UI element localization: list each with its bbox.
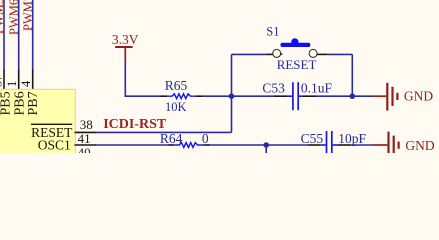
svg-text:40: 40 bbox=[78, 145, 91, 153]
wire C53 to junction bbox=[316, 95, 352, 97]
wire ICDI-RST horizontal bbox=[97, 131, 232, 133]
pin 41 stub (black) bbox=[75, 144, 97, 146]
junction dot at S1/C53/GND tee bbox=[350, 93, 356, 99]
stub bbox=[372, 95, 386, 97]
svg-text:RESET: RESET bbox=[277, 57, 317, 72]
svg-text:10pF: 10pF bbox=[338, 131, 366, 146]
plate left bbox=[292, 82, 294, 110]
wire from S1 right bbox=[327, 53, 352, 55]
plate left bbox=[326, 131, 328, 154]
pin 57 wire stub (black) bbox=[3, 70, 5, 90]
svg-text:R64: R64 bbox=[160, 131, 183, 146]
lead left bbox=[287, 95, 292, 97]
plate right bbox=[331, 131, 333, 154]
svg-text:GND: GND bbox=[404, 88, 433, 103]
svg-text:0.1uF: 0.1uF bbox=[301, 81, 333, 96]
wire PWM net 2 (vertical) bbox=[18, 0, 20, 70]
terminal circle left bbox=[273, 49, 281, 57]
svg-text:C55: C55 bbox=[301, 131, 324, 146]
svg-text:PWM7: PWM7 bbox=[21, 0, 35, 31]
pin 1 arrow tip bbox=[281, 53, 283, 56]
actuator plunger bump bbox=[291, 38, 298, 45]
svg-text:PWM5: PWM5 bbox=[0, 0, 6, 34]
ground GND (top) bbox=[372, 83, 433, 111]
capacitor C55 bbox=[301, 131, 367, 154]
resistor R65 bbox=[161, 78, 203, 114]
pin 1 of C55 (black) bbox=[307, 144, 320, 146]
svg-text:R65: R65 bbox=[165, 78, 188, 93]
bar 1 bbox=[387, 132, 389, 154]
svg-text:GND: GND bbox=[405, 138, 434, 153]
pin 2 of R65 (black) bbox=[196, 95, 203, 97]
lead right bbox=[299, 95, 302, 97]
wire junction to C53 bbox=[232, 95, 274, 97]
ground GND (bottom) bbox=[374, 132, 435, 154]
wire from 3.3V down bbox=[124, 61, 126, 96]
pin 1 of C53 (black) bbox=[274, 95, 287, 97]
wire R65 to junction bbox=[203, 95, 232, 97]
resistor R64 bbox=[160, 131, 210, 147]
svg-text:PB7: PB7 bbox=[26, 91, 41, 115]
wire PWM net 3 (vertical) bbox=[32, 0, 34, 70]
svg-text:ICDI-RST: ICDI-RST bbox=[103, 117, 167, 132]
svg-text:1: 1 bbox=[5, 81, 19, 87]
wire junction to C55 bbox=[266, 144, 307, 146]
svg-text:OSC1: OSC1 bbox=[38, 137, 71, 152]
pin 1 of R64 (black) bbox=[168, 144, 174, 146]
svg-text:0: 0 bbox=[202, 131, 209, 146]
switch S1 (pushbutton) bbox=[232, 25, 353, 72]
bar 2 bbox=[393, 136, 395, 154]
wire 3.3V corner to R65 bbox=[125, 95, 161, 97]
pin 4 wire stub (black) bbox=[32, 70, 34, 90]
lead left bbox=[321, 144, 326, 146]
svg-text:38: 38 bbox=[80, 117, 93, 132]
pin 2 of S1 (black) bbox=[317, 53, 327, 55]
capacitor C53 bbox=[262, 81, 332, 111]
svg-text:57: 57 bbox=[0, 75, 4, 88]
wire PWM net 1 (vertical) bbox=[3, 0, 5, 70]
svg-text:PWM6: PWM6 bbox=[7, 0, 21, 35]
sheet background bbox=[0, 0, 439, 153]
wire C55 to GND bbox=[351, 144, 374, 146]
junction dot at R65/C53 tee bbox=[229, 93, 235, 99]
bar 1 bbox=[386, 83, 388, 111]
svg-text:S1: S1 bbox=[266, 25, 279, 39]
bar 2 bbox=[391, 87, 393, 106]
pin 2 of C53 (black) bbox=[302, 95, 316, 97]
wire to S1 left bbox=[232, 53, 267, 55]
body zigzag bbox=[174, 143, 203, 148]
body zigzag bbox=[167, 94, 196, 99]
pin 2 of R64 (black) bbox=[203, 144, 210, 146]
pin 1 of R65 (black) bbox=[161, 95, 168, 97]
wire vertical from S1 right leg down bbox=[351, 54, 353, 96]
bar 3 bbox=[396, 93, 398, 100]
wire vertical net RESET (switch left leg down to ICDI-RST) bbox=[231, 54, 233, 132]
svg-text:10K: 10K bbox=[165, 100, 187, 114]
svg-text:PB5: PB5 bbox=[0, 91, 13, 115]
wire junction to GND bbox=[352, 95, 372, 97]
pin 1 wire stub (black) bbox=[18, 70, 20, 90]
wire R64 to junction bbox=[210, 144, 266, 146]
stub bbox=[374, 144, 388, 146]
wire stub down from OSC1 node (clipped) bbox=[265, 145, 267, 154]
IC U1 body (partial, clipped at left/bottom) bbox=[0, 89, 75, 159]
svg-text:3.3V: 3.3V bbox=[112, 32, 139, 47]
pin 2 of C55 (black) bbox=[338, 144, 351, 146]
lead right bbox=[333, 144, 338, 146]
pin 1 of S1 (black) bbox=[266, 53, 273, 55]
plate right bbox=[297, 82, 299, 110]
svg-text:4: 4 bbox=[19, 80, 33, 87]
terminal circle right bbox=[309, 49, 317, 57]
svg-text:C53: C53 bbox=[262, 81, 285, 96]
junction dot OSC1 node bbox=[263, 142, 269, 148]
actuator bar bbox=[281, 43, 311, 47]
pin 38 stub (black) bbox=[75, 131, 97, 133]
wire OSC1 from pin 41 bbox=[97, 144, 168, 146]
bar 3 bbox=[398, 142, 400, 149]
svg-text:41: 41 bbox=[78, 131, 91, 146]
